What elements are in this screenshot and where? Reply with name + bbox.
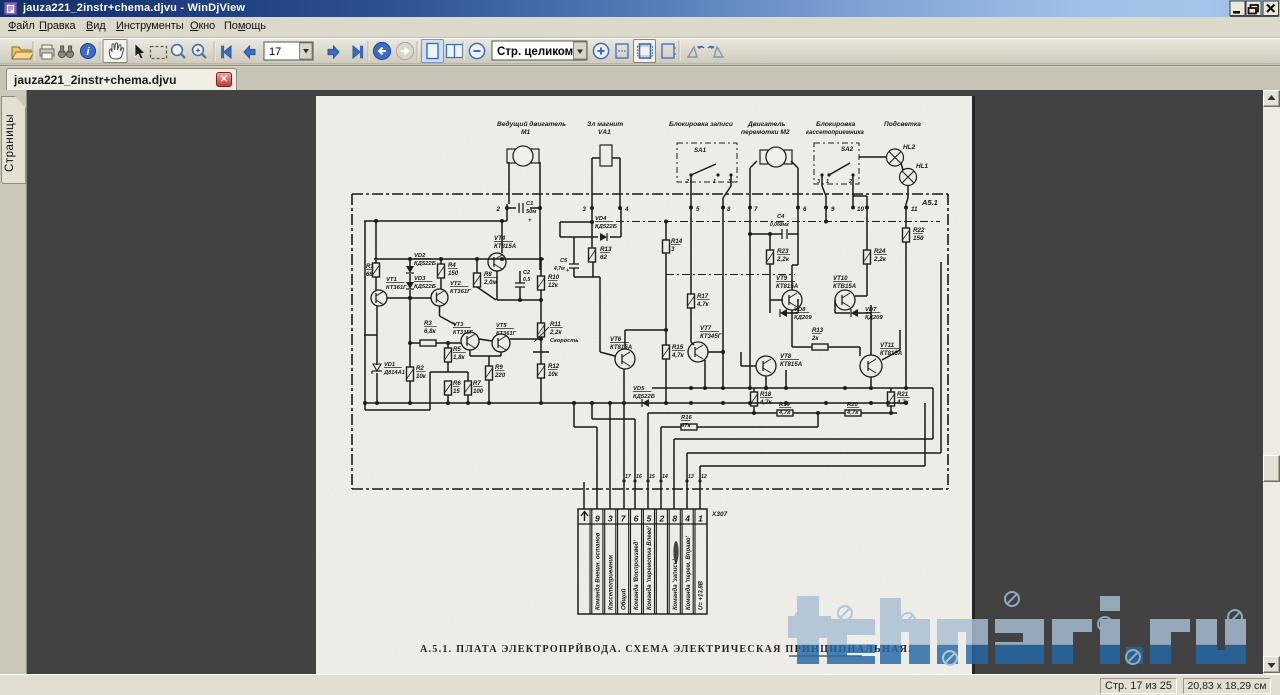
svg-text:+: +: [196, 45, 201, 55]
svg-text:Стр. целиком: Стр. целиком: [497, 46, 573, 58]
svg-text:17: 17: [269, 46, 281, 58]
